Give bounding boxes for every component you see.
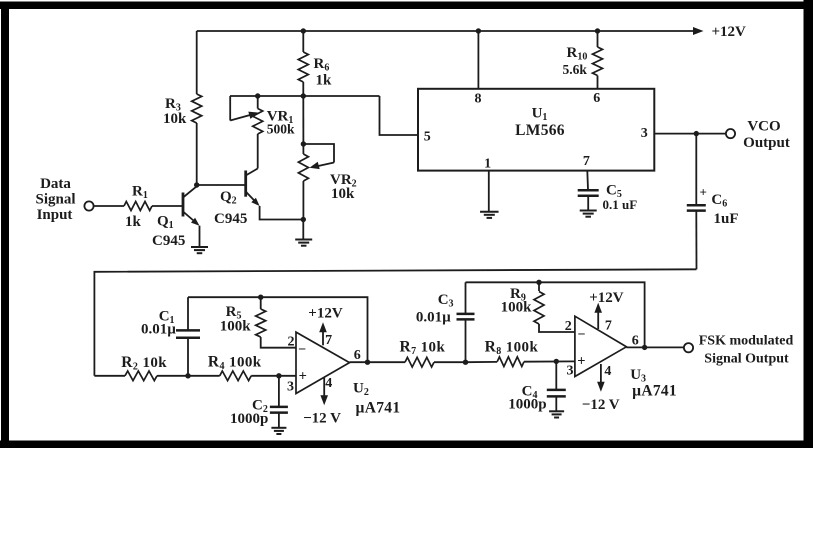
- svg-text:6: 6: [593, 91, 600, 106]
- wire VR1 bottom to Q2 collector: [257, 134, 259, 169]
- junction U2 output feedback: [365, 360, 370, 365]
- ground under VR2: [295, 240, 312, 246]
- IC U1 LM566 box: [418, 89, 654, 171]
- junction R7-R8-C3: [463, 360, 468, 365]
- svg-text:1k: 1k: [125, 214, 142, 230]
- resistor R3: [192, 94, 202, 123]
- wire R9 top: [538, 282, 540, 291]
- Q1 base bar: [182, 193, 185, 217]
- capacitor C5: [578, 190, 599, 196]
- svg-text:100k: 100k: [220, 319, 252, 335]
- junction rail R10: [595, 28, 600, 33]
- svg-text:−: −: [578, 328, 586, 343]
- arrowhead +12V rail: [693, 27, 704, 35]
- svg-text:+: +: [700, 185, 707, 200]
- svg-text:+: +: [299, 369, 307, 385]
- junction pin3-C6: [694, 131, 699, 136]
- svg-text:0.1 uF: 0.1 uF: [603, 197, 638, 212]
- arrowhead U2 +12V: [319, 322, 327, 332]
- svg-text:+12V: +12V: [712, 24, 747, 40]
- junction Q1 collector R3: [194, 182, 199, 187]
- wire VR1 top: [257, 96, 259, 109]
- svg-text:2: 2: [288, 334, 295, 349]
- wire C2 to ground: [278, 413, 280, 427]
- svg-text:+: +: [577, 354, 585, 370]
- arrowhead U3 +12V: [594, 303, 602, 313]
- svg-text:µA741: µA741: [632, 383, 677, 400]
- svg-text:100k: 100k: [501, 300, 532, 316]
- wire node to C1: [187, 339, 189, 376]
- svg-text:7: 7: [325, 333, 332, 348]
- svg-text:8: 8: [475, 91, 482, 106]
- wire input to R1: [94, 205, 124, 207]
- resistor R10: [593, 47, 603, 76]
- wire R10 to pin6: [597, 76, 599, 89]
- wire VR1 wiper arrow line: [230, 115, 251, 121]
- svg-text:+12V: +12V: [589, 290, 624, 306]
- ground under Q1: [191, 247, 208, 253]
- svg-text:Output: Output: [743, 135, 790, 151]
- Q1 emitter: [183, 212, 198, 225]
- junction rail pin8: [476, 28, 481, 33]
- border frame right bar: [804, 0, 813, 448]
- ground under U1 pin1: [480, 212, 499, 218]
- wire mid rail to pin5: [380, 96, 419, 135]
- junction feedback R9: [536, 280, 541, 285]
- wire U3 feedback: [466, 282, 645, 347]
- wire VR2 wiper arrow line: [317, 163, 334, 167]
- svg-text:1000p: 1000p: [508, 397, 546, 413]
- terminal VCO Output: [726, 129, 735, 138]
- svg-text:−12 V: −12 V: [582, 397, 620, 413]
- resistor R1: [124, 202, 152, 211]
- junction R2-R4-C1: [185, 373, 190, 378]
- wire R4 to plus node: [188, 375, 220, 377]
- wire Q2 emitter down: [260, 206, 304, 220]
- resistor R5: [256, 309, 266, 337]
- svg-text:1uF: 1uF: [714, 211, 739, 227]
- svg-text:500k: 500k: [267, 121, 295, 136]
- junction U3 output feedback: [642, 345, 647, 350]
- svg-text:Signal Output: Signal Output: [704, 352, 789, 367]
- terminal FSK output: [684, 343, 693, 352]
- junction mid rail R6: [301, 93, 306, 98]
- Q2 collector: [246, 169, 258, 176]
- svg-text:5: 5: [424, 129, 431, 144]
- U2 pin4 supply line: [323, 378, 325, 398]
- junction mid rail VR1: [255, 93, 260, 98]
- U2 pin7 supply line: [322, 330, 324, 345]
- wire node to C3: [465, 320, 467, 362]
- arrowhead Q1 emitter: [191, 218, 200, 226]
- capacitor C6: [687, 205, 706, 210]
- ground under C5: [580, 211, 597, 217]
- wire C6 to lower left: [94, 269, 696, 376]
- wire R5 top: [260, 297, 262, 309]
- svg-text:R8 100k: R8 100k: [485, 339, 539, 358]
- capacitor C3: [457, 314, 475, 320]
- resistor R6: [298, 52, 308, 82]
- svg-text:1000p: 1000p: [230, 411, 268, 427]
- svg-text:µA741: µA741: [356, 400, 401, 417]
- wire R3 to Q1 collector: [196, 123, 198, 185]
- op-amp U2 triangle: [296, 332, 350, 393]
- svg-text:2: 2: [565, 319, 572, 334]
- Q1 collector: [183, 186, 197, 197]
- capacitor C4: [547, 390, 566, 397]
- svg-text:0.01µ: 0.01µ: [416, 310, 451, 326]
- wire U2 output: [350, 361, 406, 363]
- junction VR2-Q2 emitter: [301, 217, 306, 222]
- wire Q1 emitter to ground: [199, 226, 201, 246]
- wire node to C2: [278, 376, 280, 406]
- svg-text:R7 10k: R7 10k: [400, 339, 446, 358]
- wire VCO line to C6: [695, 134, 697, 205]
- svg-text:1: 1: [484, 156, 491, 171]
- wire R4 to U2 plus: [251, 375, 296, 377]
- junction rail-R6: [301, 28, 306, 33]
- svg-text:0.01µ: 0.01µ: [141, 322, 176, 338]
- svg-text:10k: 10k: [163, 111, 187, 127]
- wire node A to R8: [466, 361, 498, 363]
- wire U3 output: [626, 346, 684, 348]
- terminal Data Signal Input: [84, 201, 93, 210]
- border frame left bar: [1, 2, 9, 449]
- wire to ground VR2: [302, 220, 304, 240]
- svg-text:−12 V: −12 V: [303, 411, 341, 427]
- wire rail to R6: [302, 31, 304, 52]
- op-amp U3 triangle: [575, 316, 627, 376]
- svg-text:−: −: [298, 343, 306, 358]
- wire rail to pin8: [477, 31, 479, 89]
- svg-text:7: 7: [583, 154, 590, 169]
- wire R2 to node: [157, 375, 188, 377]
- wire R6 to mid rail: [302, 82, 304, 96]
- svg-text:6: 6: [354, 348, 361, 363]
- svg-text:7: 7: [605, 319, 612, 334]
- svg-text:4: 4: [604, 364, 611, 379]
- capacitor C1: [176, 330, 200, 337]
- svg-text:R2 10k: R2 10k: [121, 354, 167, 373]
- wire C5 to ground: [587, 196, 589, 210]
- wire C3 to U3 feedback: [465, 282, 467, 313]
- resistor R2: [125, 371, 157, 381]
- wire C6 down: [695, 212, 697, 270]
- resistor R9: [534, 292, 544, 325]
- arrowhead Q2 emitter: [251, 198, 259, 206]
- svg-text:Signal: Signal: [35, 192, 75, 208]
- wire C1 to feedback: [187, 297, 189, 330]
- wire pin1 to ground: [488, 171, 490, 211]
- arrowhead U2 -12V: [320, 395, 328, 405]
- svg-text:R4 100k: R4 100k: [208, 354, 262, 373]
- U3 pin4 supply line: [600, 364, 602, 384]
- wire +12V rail: [197, 30, 694, 32]
- ground under C2: [271, 428, 286, 434]
- junction U3 plus C4: [554, 359, 559, 364]
- junction U2 plus C2: [276, 373, 281, 378]
- border frame bottom bar: [0, 441, 813, 449]
- arrowhead VR2 wiper: [310, 162, 320, 169]
- svg-text:3: 3: [287, 380, 294, 395]
- svg-text:LM566: LM566: [515, 122, 565, 139]
- svg-text:3: 3: [567, 363, 574, 378]
- resistor R7: [405, 357, 434, 367]
- svg-text:10k: 10k: [331, 186, 355, 202]
- wire pin3 to VCO output: [654, 133, 726, 135]
- wire R7 to node A: [434, 361, 466, 363]
- U3 pin7 supply line: [597, 311, 599, 330]
- svg-text:1k: 1k: [316, 73, 333, 89]
- wire R9 to minus input: [539, 324, 575, 332]
- capacitor C2: [270, 407, 288, 413]
- wire node to C4: [555, 361, 557, 389]
- Q2 base bar: [244, 171, 247, 197]
- ground under C4: [549, 411, 564, 417]
- Q2 emitter: [246, 192, 258, 205]
- svg-text:5.6k: 5.6k: [563, 62, 588, 77]
- wire R1 to Q1 base: [152, 205, 182, 207]
- junction feedback R5: [258, 295, 263, 300]
- svg-text:FSK modulated: FSK modulated: [699, 334, 794, 349]
- wire R8 to U3 plus: [524, 360, 575, 362]
- svg-text:6: 6: [632, 334, 639, 349]
- resistor R4: [220, 371, 252, 381]
- potentiometer VR1 body: [253, 109, 263, 135]
- svg-text:Input: Input: [37, 207, 73, 223]
- wire R5 to minus input: [261, 337, 296, 348]
- wire rail to R10: [597, 31, 599, 47]
- svg-text:3: 3: [641, 126, 648, 141]
- wire U2 feedback: [188, 297, 368, 362]
- wire pin7 to C5: [586, 171, 589, 190]
- wire VR2 bottom: [302, 181, 304, 220]
- wire R6 junction down to VR2: [302, 96, 304, 154]
- junction VR2 top: [301, 141, 306, 146]
- wire C4 to ground: [555, 396, 557, 410]
- arrowhead U3 -12V: [597, 382, 605, 392]
- svg-text:VCO: VCO: [747, 119, 780, 135]
- svg-text:+12V: +12V: [308, 306, 343, 322]
- svg-text:4: 4: [325, 376, 332, 391]
- wire Q1 collector to Q2 base: [197, 184, 245, 186]
- wire rail to R3: [196, 31, 198, 94]
- svg-text:C945: C945: [214, 211, 247, 227]
- wire VR2 wiper loop: [303, 144, 334, 163]
- resistor R8: [497, 357, 524, 367]
- svg-text:C945: C945: [152, 233, 185, 249]
- svg-text:Data: Data: [40, 176, 71, 192]
- border frame top bar: [0, 2, 813, 10]
- wire to R2: [94, 375, 125, 377]
- potentiometer VR2 body: [298, 154, 308, 181]
- wire VR1 wiper loop: [229, 96, 231, 121]
- wire mid rail: [230, 95, 380, 97]
- arrowhead VR1 wiper: [248, 112, 258, 119]
